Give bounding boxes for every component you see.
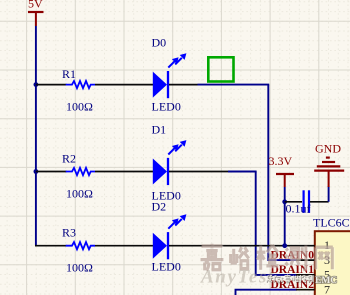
wire: to pin 5 xyxy=(296,274,315,276)
LED D2 xyxy=(153,214,187,259)
LED D0 xyxy=(153,53,187,98)
wire: row2 vertical down to pin5 row xyxy=(256,172,297,275)
wire: R2 to D1 xyxy=(95,171,154,173)
junction dot row1 xyxy=(34,82,39,87)
svg-text:EMC: EMC xyxy=(315,276,337,286)
junction dot row2 xyxy=(34,169,39,174)
svg-text:TLC6C5912: TLC6C5912 xyxy=(313,216,350,230)
svg-text:D0: D0 xyxy=(152,36,167,50)
svg-text:1: 1 xyxy=(324,238,330,252)
svg-text:AnyTest: AnyTest xyxy=(200,267,275,288)
svg-text:0.1uf: 0.1uf xyxy=(286,202,311,216)
wire: rail to R1 xyxy=(36,84,67,86)
wire: C1 to gnd riser xyxy=(310,201,329,203)
svg-text:R2: R2 xyxy=(62,152,76,166)
wire: R3 to D2 xyxy=(95,245,154,247)
wire: D2 to pin 1 xyxy=(169,245,315,247)
resistor R3 xyxy=(66,242,95,249)
svg-text:100Ω: 100Ω xyxy=(66,261,93,275)
svg-text:LED0: LED0 xyxy=(152,260,181,274)
wire: to pin 3 xyxy=(296,259,315,261)
svg-text:LED0: LED0 xyxy=(152,100,181,114)
compile-error marker (green box) xyxy=(208,57,233,81)
power symbol 5V xyxy=(28,0,44,26)
wire: 3.3V rail down to row3 xyxy=(284,187,286,246)
svg-text:R3: R3 xyxy=(62,226,76,240)
wire: junction to C1 xyxy=(285,201,302,203)
svg-text:3.3V: 3.3V xyxy=(269,154,293,168)
svg-text:R1: R1 xyxy=(62,67,76,81)
wire: D0 to corner (black then navy) xyxy=(169,84,198,86)
wire: gnd riser xyxy=(328,186,330,202)
chip U1 body (TLC6C5912) xyxy=(315,231,350,295)
wire: rail corner to R3 xyxy=(35,245,67,247)
capacitor C1 xyxy=(304,190,309,213)
resistor R1 xyxy=(66,81,95,88)
junction dot cap xyxy=(282,199,287,204)
power symbol 3.3V xyxy=(269,154,295,187)
watermark wechat line (vector CJK + EMC) xyxy=(267,275,314,283)
wire: row1 vertical down to pin3 row xyxy=(268,85,297,261)
wire: to pin 7 xyxy=(296,289,315,291)
LED D1 xyxy=(153,140,187,185)
svg-text:GND: GND xyxy=(315,142,341,156)
junction dot row3 xyxy=(282,243,287,248)
wire: rail to R2 xyxy=(36,171,67,173)
svg-text:5V: 5V xyxy=(28,0,43,11)
wire: R1 to D0 xyxy=(95,84,154,86)
svg-text:D2: D2 xyxy=(152,200,167,214)
svg-text:100Ω: 100Ω xyxy=(66,100,93,114)
watermark big (vector CJK: jia yu jian ce wang) xyxy=(201,245,333,272)
svg-text:D1: D1 xyxy=(152,123,167,137)
resistor R2 xyxy=(66,168,95,175)
wire: pin7 feed from below xyxy=(236,290,298,295)
wire: D1 to corner xyxy=(169,171,228,173)
svg-text:100Ω: 100Ω xyxy=(66,187,93,201)
wire: 5V vertical rail xyxy=(35,26,37,246)
ground symbol GND xyxy=(314,142,344,188)
